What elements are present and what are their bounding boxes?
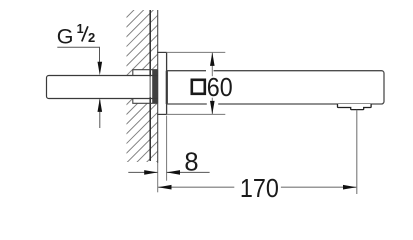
dim line 170 xyxy=(158,186,234,188)
arrow sq60 up xyxy=(210,52,215,66)
G1/2 leader xyxy=(57,47,99,62)
escutcheon top edge xyxy=(157,51,166,53)
white halos where dim line crosses spout edges xyxy=(206,69,214,72)
escutcheon front face xyxy=(166,52,168,114)
fitting outline in wall xyxy=(133,70,158,104)
extension line: wall face down xyxy=(157,163,159,192)
dim 8 right tail xyxy=(167,171,210,173)
svg-text:170: 170 xyxy=(240,175,279,203)
escutcheon bottom edge xyxy=(157,113,166,115)
wall face line xyxy=(157,10,159,163)
fraction slash xyxy=(82,26,88,41)
wall line left xyxy=(149,10,151,161)
extension line: escutcheon front down xyxy=(166,116,168,181)
soften wall line over pipe interior xyxy=(149,76,151,97)
spout body bottom edge xyxy=(167,103,382,105)
dim 8 left tail xyxy=(128,171,157,173)
wall hatching xyxy=(116,0,164,203)
aerator xyxy=(338,104,372,110)
square symbol xyxy=(192,80,205,94)
arrow G1/2 down xyxy=(98,62,103,76)
spout body right end xyxy=(382,71,385,104)
svg-text:60: 60 xyxy=(207,74,233,102)
arrow 170 left xyxy=(158,185,172,190)
white-out: wall fitting interior xyxy=(133,70,158,104)
escutcheon front thick part xyxy=(166,71,168,104)
text sq60 xyxy=(189,76,234,98)
spout body top edge xyxy=(167,70,382,72)
svg-text:G: G xyxy=(57,25,74,49)
arrow 8 right xyxy=(167,170,181,175)
svg-text:1: 1 xyxy=(77,22,84,36)
arrow 8 left xyxy=(144,170,158,175)
svg-text:8: 8 xyxy=(184,149,198,177)
leader from aerator xyxy=(356,110,358,194)
extension line: sq60 top xyxy=(167,51,226,53)
arrow G1/2 up xyxy=(98,98,103,112)
arrow sq60 down xyxy=(210,101,215,115)
arrow 170 right xyxy=(343,185,357,190)
dark seal band in wall xyxy=(152,70,158,103)
extension line: sq60 bottom xyxy=(167,113,226,115)
G1/2 lower tail xyxy=(99,100,101,129)
dim line sq60 vertical xyxy=(211,52,213,114)
white-out: pipe interior xyxy=(47,76,158,99)
svg-text:2: 2 xyxy=(88,30,95,45)
supply pipe xyxy=(47,76,158,99)
